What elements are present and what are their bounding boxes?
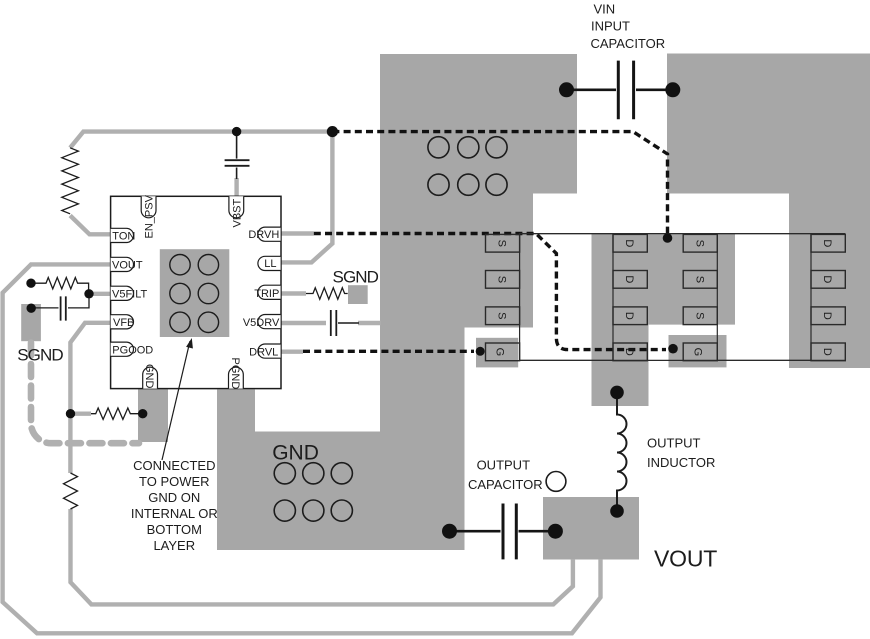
svg-text:S: S [496,312,508,319]
node C-OUT left [442,524,457,539]
svg-text:TON: TON [112,231,135,243]
svg-text:PGOOD: PGOOD [112,345,153,357]
label CONNECTED TO POWER GND ON INTERNAL OR BOTTOM LAYER [131,458,218,553]
resistor R-FB-low (to GND pad) [91,408,140,419]
pad: thermal pad of U1 [160,249,230,337]
node inductor bottom [610,504,624,518]
node VIN: input plane (top right) [667,54,870,369]
pad: SGND copper left [21,304,41,341]
node VFB divider junction [66,409,75,418]
wire dotted LL to switch plane [332,132,667,234]
svg-text:INPUT: INPUT [591,19,630,34]
svg-text:LAYER: LAYER [153,538,195,553]
pin bubbles left: TON VOUT V5FILT VFB PGOOD [111,196,281,388]
label VIN INPUT CAPACITOR [591,2,666,52]
svg-text:D: D [821,312,833,320]
wire VOUT trace (long outer loop to VOUT plane) [3,264,601,633]
svg-text:PGND: PGND [229,358,241,390]
svg-text:GND ON: GND ON [148,490,200,505]
node Q1 gate [668,344,678,354]
svg-text:CONNECTED: CONNECTED [133,458,215,473]
svg-text:S: S [693,312,705,319]
via group on bottom GND plane [274,463,352,522]
svg-text:BOTTOM: BOTTOM [147,522,202,537]
svg-text:S: S [496,276,508,283]
node LL junction [327,126,338,137]
wire dotted DRVH to Q1 gate [314,234,666,350]
svg-text:D: D [623,348,635,356]
svg-text:GND: GND [272,442,319,465]
svg-text:SGND: SGND [17,345,63,364]
svg-text:D: D [821,239,833,247]
svg-text:OUTPUT: OUTPUT [477,457,531,472]
via group on input GND plane [428,137,507,196]
svg-text:CAPACITOR: CAPACITOR [468,477,543,492]
svg-text:DRVH: DRVH [248,229,279,241]
wire FET bus lines [520,234,846,361]
svg-text:VOUT: VOUT [654,546,717,572]
svg-text:CAPACITOR: CAPACITOR [591,36,666,51]
pad: gate pad island Q1 (high-side) [669,335,727,367]
svg-text:EN_PSV: EN_PSV [144,194,156,238]
pin bubbles right: DRVH LL TRIP V5DRV DRVL [258,227,281,241]
svg-text:D: D [821,348,833,356]
svg-text:G: G [691,348,703,357]
svg-text:V5FILT: V5FILT [112,288,148,300]
resistor R-FB-top (vertical, in VFB trace) [64,473,78,509]
svg-text:D: D [623,239,635,247]
wire DRVL stub [280,350,303,354]
wire VBST stub [234,178,238,198]
svg-text:OUTPUT: OUTPUT [647,436,701,451]
resistor R-TRIP [306,288,348,299]
capacitor C-V5FILT [31,295,89,321]
wire V5DRV stub left [280,321,326,325]
svg-text:TO POWER: TO POWER [139,474,210,489]
svg-text:S: S [496,240,508,247]
pad: GND pad under IC GND pin [138,389,168,442]
node C-IN right [665,82,680,97]
inductor L-OUT (output inductor) [617,392,627,508]
svg-text:D: D [821,275,833,283]
node V5FILT junction [84,289,93,298]
node R-FB-low right [138,409,147,418]
via thermal pad vias [170,255,219,333]
svg-text:TRIP: TRIP [254,288,279,300]
wire TON resistor bottom to TON pin [70,216,112,235]
arrow from note to thermal pad [162,341,190,460]
op-amp U1 body (controller IC) [111,196,281,388]
svg-text:DRVL: DRVL [249,347,278,359]
node LL plane tap [663,233,673,243]
node VOUT: output plane [543,497,639,560]
wire TRIP stub [280,291,306,295]
svg-text:D: D [623,312,635,320]
capacitor C-IN (VIN input capacitor) [567,61,674,120]
resistor R-TON (vertical) [62,148,79,214]
svg-text:D: D [623,275,635,283]
svg-text:GND: GND [143,364,155,389]
pin bubbles top: EN_PSV VBST [141,196,156,217]
resistor R-V5FILT (horizontal) [31,278,89,293]
label OUTPUT CAPACITOR [468,457,543,492]
capacitor C-VBST (bootstrap) [225,134,250,179]
svg-text:VIN: VIN [594,2,616,17]
node C-OUT right [548,524,563,539]
wire DRVH stub [280,231,314,235]
svg-text:G: G [494,348,506,357]
transistor Q1 outline (high-side FET) [717,234,811,361]
node GND: power-ground plane (left + bottom) [217,54,577,550]
wire V5DRV stub right [358,321,381,325]
wire VFB trace lower part [71,509,573,604]
node inductor top [610,386,624,400]
pad: SGND copper at TRIP [348,285,368,304]
node R-V5FILT left [26,279,35,288]
transistor Q2 outline (low-side FET) [520,234,613,361]
wire top: TON/R to VBST-cap to LL junction [70,132,332,148]
wire VFB trace (feedback loop to VOUT plane) [70,323,112,473]
wire SGND dashed return trace [31,343,139,444]
wire V5FILT stub [89,292,112,296]
wire dotted DRVL to Q2 gate [303,350,474,353]
wire LL pin up to junction [280,132,332,263]
node C-IN left [559,82,574,97]
svg-text:VFB: VFB [113,317,134,329]
wire stub at VFB divider resistor [71,412,92,416]
svg-text:INDUCTOR: INDUCTOR [647,455,715,470]
via at output capacitor label [546,472,566,492]
svg-text:INTERNAL OR: INTERNAL OR [131,506,218,521]
node Q2 gate [476,347,485,356]
capacitor C-V5DRV [331,310,359,336]
node C-V5FILT left [27,304,36,313]
pin bubbles bottom: GND PGND [143,367,158,389]
svg-text:SGND: SGND [333,268,379,287]
node LL: switch-node plane [592,234,736,407]
pin labels S/D/G rotated [494,239,834,356]
node VBST junction [232,127,241,136]
svg-text:VBST: VBST [232,198,244,227]
svg-text:S: S [693,276,705,283]
pad: gate pad island Q2 (low-side) [476,338,518,368]
label OUTPUT INDUCTOR [647,436,715,471]
pin names U1 [112,194,280,389]
svg-text:LL: LL [264,258,276,270]
capacitor C-OUT (output capacitor) [450,504,556,560]
pins Q2 left: S S S G ; right: D D D D [486,234,846,360]
svg-text:VOUT: VOUT [112,260,143,272]
svg-text:S: S [693,240,705,247]
svg-text:V5DRV: V5DRV [243,317,280,329]
